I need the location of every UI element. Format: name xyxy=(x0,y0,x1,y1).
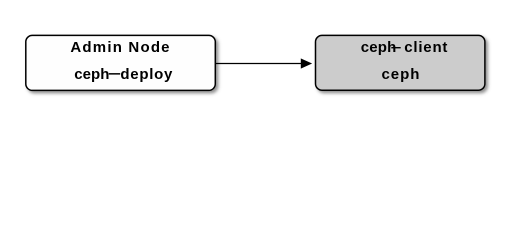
svg-text:ceph: ceph xyxy=(74,66,109,83)
svg-text:ceph: ceph xyxy=(382,66,421,83)
svg-text:Admin Node: Admin Node xyxy=(70,39,170,56)
svg-text:client: client xyxy=(404,39,448,56)
svg-text:ceph: ceph xyxy=(361,39,397,56)
svg-text:deploy: deploy xyxy=(120,66,173,83)
